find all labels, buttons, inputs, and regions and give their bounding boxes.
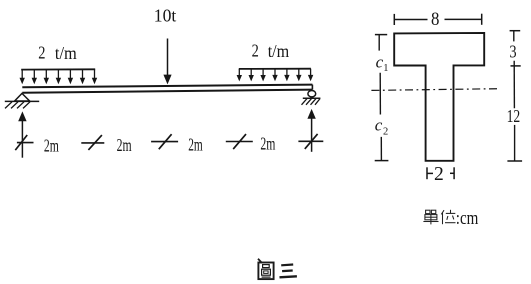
svg-text::cm: :cm <box>456 208 479 229</box>
distributed load label 2 t/m (right) <box>252 41 290 61</box>
三 <box>281 263 293 266</box>
dimension label 2m (3) <box>188 134 203 154</box>
svg-text:2m: 2m <box>188 134 203 154</box>
distributed load w=2t/m (right span) <box>237 69 314 82</box>
位 <box>441 210 444 214</box>
point load arrow 10t <box>163 39 171 85</box>
dimension 2 (stem width) <box>427 163 454 185</box>
svg-text:2m: 2m <box>260 133 275 153</box>
dimension label 2m (2) <box>117 135 132 155</box>
reaction arrow (left, upward) <box>18 111 26 157</box>
svg-text:2: 2 <box>252 41 259 61</box>
svg-text:3: 3 <box>509 41 516 61</box>
pin support (left) <box>5 93 39 101</box>
dimension label 2m (4) <box>260 133 275 153</box>
svg-text:t/m: t/m <box>55 43 78 63</box>
dimension label 12 <box>507 106 521 126</box>
point load label 10t <box>154 6 177 26</box>
dimension label 2m (1) <box>44 136 59 156</box>
unit note 單位:cm <box>423 210 455 225</box>
neutral-axis centerline (dash-dot) <box>371 89 499 91</box>
svg-text:2m: 2m <box>44 136 59 156</box>
reaction arrow (right, upward) <box>307 109 315 152</box>
roller support (right) <box>303 91 321 99</box>
distributed load label 2 t/m (left) <box>38 43 77 63</box>
svg-text:10t: 10t <box>154 6 177 26</box>
dimension line 3/12 (right of section) <box>507 31 522 161</box>
圖 <box>258 263 273 280</box>
dimension label 3 <box>509 41 516 61</box>
svg-text:2: 2 <box>38 43 45 63</box>
distributed load w=2t/m (left span) <box>20 69 98 84</box>
label c2 <box>375 115 388 137</box>
svg-text:2m: 2m <box>117 135 132 155</box>
pin support hatching <box>5 102 30 109</box>
單 <box>426 210 430 213</box>
dimension tick 2 <box>81 135 104 150</box>
svg-text:c: c <box>375 115 383 134</box>
dimension tick 5 <box>298 134 323 149</box>
label c1 <box>376 52 389 74</box>
roller support hatching <box>302 99 321 105</box>
svg-text:8: 8 <box>431 9 439 30</box>
dimension tick 3 <box>151 134 178 149</box>
dimension line c1/c2 (left of section) <box>375 35 389 161</box>
svg-text:1: 1 <box>383 63 388 74</box>
dimension tick 1 <box>15 135 33 150</box>
svg-text:2: 2 <box>434 163 444 185</box>
T cross-section outline <box>394 33 484 161</box>
dimension tick 4 <box>226 134 253 149</box>
figure caption 圖三 <box>258 259 297 279</box>
svg-text:2: 2 <box>383 126 388 137</box>
svg-text:t/m: t/m <box>268 41 290 61</box>
svg-text:12: 12 <box>507 106 521 126</box>
dimension 8 (flange width) <box>394 9 481 30</box>
beam <box>22 85 312 93</box>
